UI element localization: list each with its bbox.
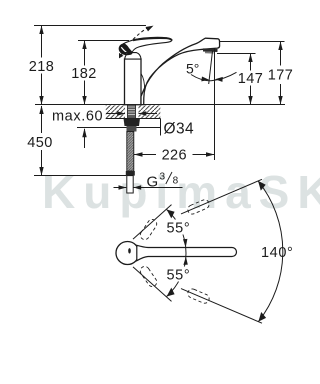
svg-text:KupimaSK: KupimaSK bbox=[42, 166, 320, 218]
55 arc bbox=[167, 210, 186, 297]
svg-text:147: 147 bbox=[238, 71, 263, 87]
svg-text:55°: 55° bbox=[167, 268, 191, 284]
dimension diameter 34 arrows bbox=[106, 113, 125, 115]
dimension 450 bbox=[41, 106, 43, 176]
spout inner fillet bbox=[141, 74, 145, 91]
svg-text:Ø34: Ø34 bbox=[164, 121, 195, 138]
handle push arrow bbox=[120, 52, 127, 56]
hose adapter bbox=[127, 126, 137, 132]
spout bbox=[141, 38, 220, 104]
countertop hatched block left bbox=[106, 105, 125, 119]
svg-text:5°: 5° bbox=[186, 61, 199, 77]
capsule upper steep bbox=[139, 218, 159, 242]
55 extension line upper bbox=[133, 205, 172, 240]
svg-text:226: 226 bbox=[162, 148, 187, 164]
55 arc arrowheads bbox=[167, 210, 175, 219]
countertop underside line bbox=[106, 118, 161, 120]
faucet body column bbox=[125, 59, 142, 105]
140 radial upper bbox=[181, 179, 262, 214]
handle lever bbox=[124, 37, 172, 52]
label 55 upper bbox=[165, 220, 193, 235]
5 degree tilted line bbox=[209, 51, 213, 84]
dimension 182 bbox=[84, 41, 86, 105]
svg-text:177: 177 bbox=[268, 68, 293, 84]
label 55 lower bbox=[165, 267, 193, 282]
hose end extension line bbox=[34, 175, 126, 177]
countertop surface line bbox=[35, 104, 285, 106]
mounting nut bbox=[124, 118, 141, 126]
140 arc arrowheads bbox=[258, 181, 266, 191]
capsule lower steep bbox=[139, 265, 159, 289]
svg-text:3: 3 bbox=[160, 172, 166, 183]
handle knob bbox=[119, 44, 132, 55]
handle top accent bbox=[133, 38, 172, 40]
5 degree arc bbox=[191, 72, 237, 80]
svg-text:218: 218 bbox=[29, 59, 54, 75]
body circle top view bbox=[116, 242, 139, 265]
55 extension line lower bbox=[133, 267, 172, 302]
lever pin dot bbox=[128, 248, 131, 253]
hose end fitting bbox=[126, 171, 135, 176]
svg-text:55°: 55° bbox=[167, 221, 191, 237]
svg-text:max.60: max.60 bbox=[52, 109, 103, 125]
braided hose bbox=[127, 132, 134, 172]
140 arc bbox=[258, 181, 283, 322]
threaded shank bbox=[128, 105, 136, 119]
cartridge dome bbox=[125, 53, 141, 59]
capsule lower shallow bbox=[186, 288, 210, 305]
max.60 extent line bbox=[77, 127, 161, 129]
capsule upper shallow bbox=[186, 198, 210, 215]
dimension 226 bbox=[134, 154, 156, 156]
svg-text:140°: 140° bbox=[261, 245, 293, 261]
svg-text:182: 182 bbox=[71, 66, 96, 82]
diameter 34 leader bracket bbox=[160, 119, 162, 136]
extension line 177 (spout top level) bbox=[220, 41, 285, 43]
G 3/8 dimension bbox=[114, 187, 127, 189]
extension line top (handle top) bbox=[34, 25, 146, 27]
extension line 182 bbox=[78, 40, 129, 42]
outlet axis extension line bbox=[214, 48, 216, 160]
svg-text:8: 8 bbox=[173, 176, 179, 187]
extension line 147 (outlet level) bbox=[217, 53, 256, 55]
countertop hatched block right bbox=[139, 105, 161, 119]
max.60 leader arrow bbox=[84, 129, 86, 148]
connection pipe G3/8 bbox=[127, 176, 133, 193]
svg-text:450: 450 bbox=[27, 135, 52, 151]
dimension 218 bbox=[41, 26, 43, 105]
svg-text:G: G bbox=[147, 173, 159, 190]
handle lift dashed arrow bbox=[133, 27, 149, 39]
dimension 147 bbox=[250, 54, 252, 105]
spout bar top view bbox=[137, 245, 237, 260]
140 radial lower bbox=[181, 289, 262, 324]
aerator bbox=[203, 48, 218, 52]
dimension 177 bbox=[280, 42, 282, 105]
